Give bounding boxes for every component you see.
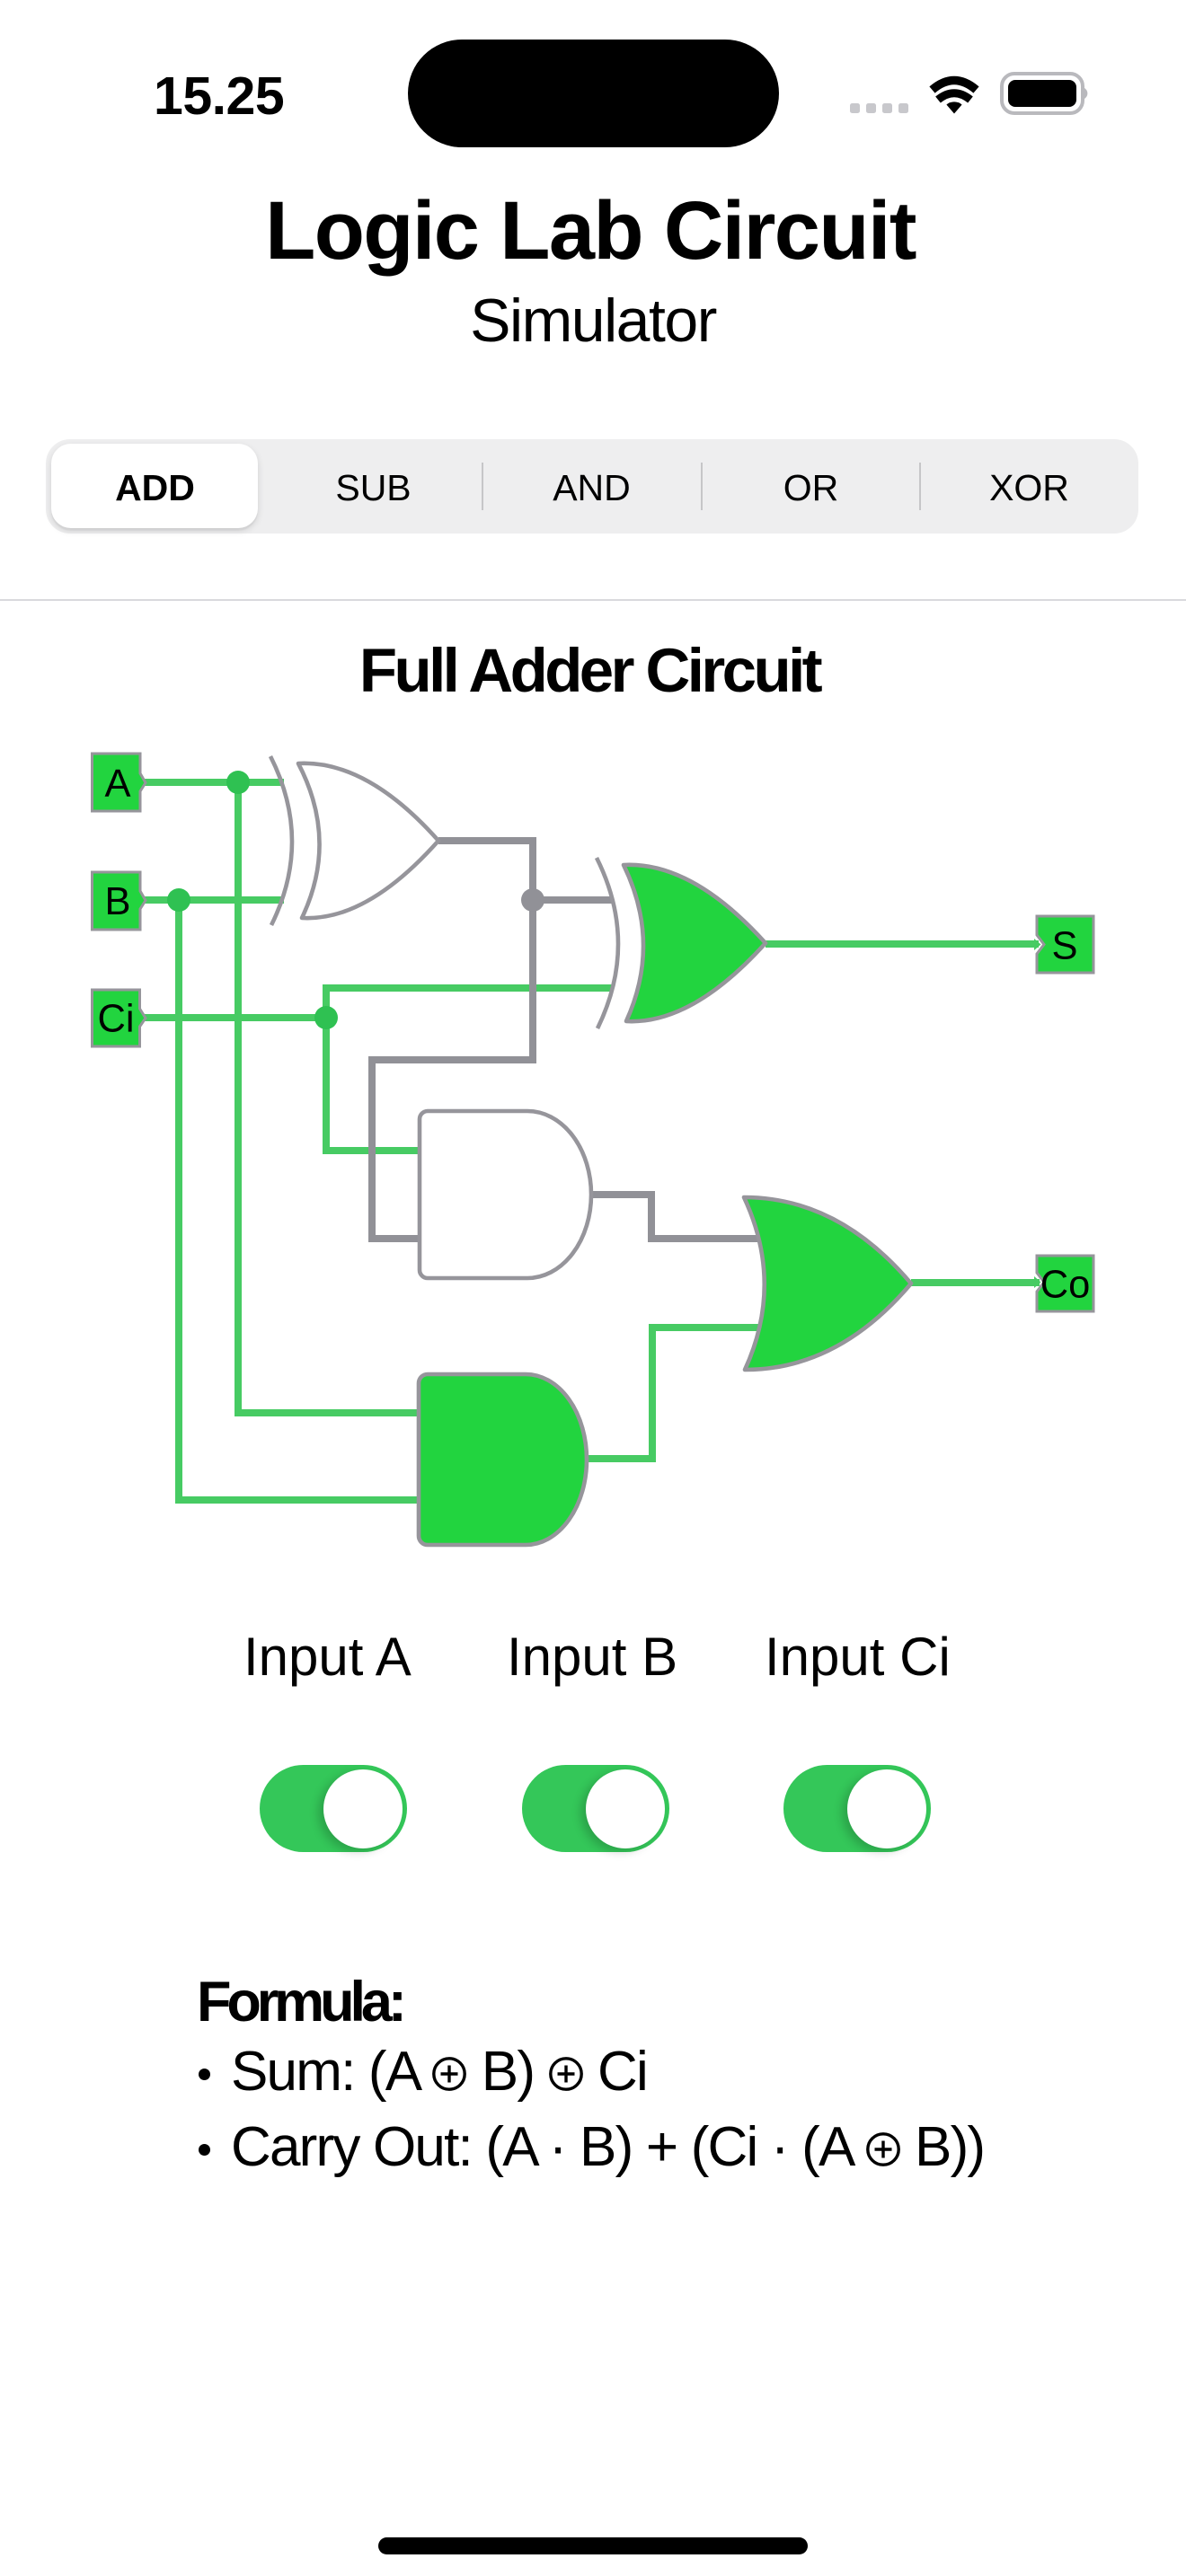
input box B xyxy=(93,872,146,930)
toggle switch A xyxy=(260,1765,407,1852)
wire arrow into Co xyxy=(1034,1276,1041,1288)
cellular dots xyxy=(850,103,908,113)
junction dot on XOR1 output xyxy=(521,888,544,912)
label A xyxy=(104,763,130,806)
label S xyxy=(1051,925,1077,968)
toggle switch Ci xyxy=(783,1765,931,1852)
input box Ci xyxy=(93,990,146,1046)
svg-text:B: B xyxy=(104,880,130,923)
wire XOR1 output to AND1 (inactive) xyxy=(372,841,533,1239)
wifi icon xyxy=(933,81,977,101)
junction dot on Ci wire xyxy=(314,1006,338,1029)
input labels xyxy=(243,1630,412,1684)
wire XOR2 output to S xyxy=(766,940,1039,948)
output box Co xyxy=(1037,1256,1093,1311)
segmented control xyxy=(46,439,1138,534)
and gate U4 body (active) xyxy=(419,1374,587,1545)
wire B-to-XOR1 xyxy=(140,896,284,904)
label B xyxy=(104,880,130,923)
wire AND2 output to OR xyxy=(587,1328,760,1459)
status bar time xyxy=(154,66,284,127)
output box S xyxy=(1037,916,1093,973)
wire AND1 output to OR (inactive) xyxy=(591,1195,760,1239)
input box A xyxy=(93,754,146,811)
xor gate U3 arc xyxy=(597,858,618,1028)
status icons right xyxy=(845,63,1096,126)
svg-text:Co: Co xyxy=(1040,1264,1091,1307)
xor gate U1 arc xyxy=(270,756,292,925)
junction dot on B wire xyxy=(167,888,190,912)
wire Ci down to AND1 xyxy=(326,1018,420,1151)
wire A-to-XOR1 xyxy=(140,779,284,786)
wire branch to XOR2 (inactive) xyxy=(533,896,613,904)
wire A riser to AND2 xyxy=(238,782,419,1413)
xor gate U1 body xyxy=(298,763,438,918)
junction dot on A wire xyxy=(226,771,250,794)
svg-text:A: A xyxy=(104,763,130,806)
wire arrow into S xyxy=(1034,939,1041,950)
wire Ci horizontal xyxy=(139,1014,326,1021)
subtitle xyxy=(0,290,1186,351)
formula heading xyxy=(197,1974,403,2031)
wire Ci up to XOR2 xyxy=(326,988,613,1018)
title xyxy=(0,190,1183,272)
dynamic island xyxy=(408,40,779,147)
label Co xyxy=(1040,1264,1091,1307)
xor gate U3 body (active) xyxy=(624,865,766,1021)
section heading xyxy=(0,640,1182,701)
separator xyxy=(0,599,1186,601)
CIRCUIT SVG xyxy=(0,0,1186,1617)
svg-text:S: S xyxy=(1051,925,1077,968)
formula carry line xyxy=(199,2120,984,2175)
home indicator xyxy=(378,2537,808,2554)
wire B riser to AND2 xyxy=(179,900,419,1500)
or gate U5 body (active) xyxy=(744,1197,911,1370)
battery xyxy=(1002,74,1087,113)
formula sum line xyxy=(199,2044,647,2100)
and gate U2 body xyxy=(420,1111,591,1278)
toggle switch B xyxy=(522,1765,669,1852)
label Ci xyxy=(97,998,134,1041)
wire OR output to Co xyxy=(911,1279,1040,1286)
svg-text:Ci: Ci xyxy=(97,998,134,1041)
